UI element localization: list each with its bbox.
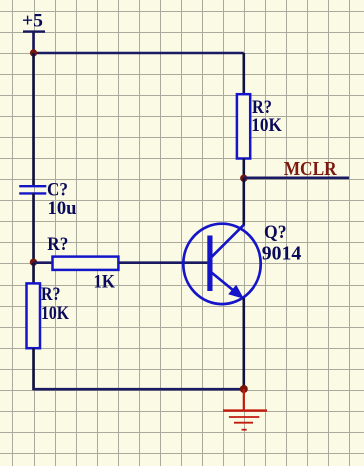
capacitor C? <box>19 186 46 193</box>
resistor R? 10K (lower left) <box>27 283 41 348</box>
svg-text:9014: 9014 <box>262 242 302 264</box>
transistor Q1 emitter arrowhead <box>228 285 244 299</box>
power +5 <box>23 32 45 53</box>
node junction ground <box>240 385 248 393</box>
svg-text:MCLR: MCLR <box>284 158 337 180</box>
svg-text:Q?: Q? <box>264 222 287 243</box>
svg-text:+5: +5 <box>22 11 43 32</box>
transistor Q1 collector line <box>212 225 244 257</box>
svg-text:R?: R? <box>41 284 61 305</box>
wire right rail top <box>243 53 246 94</box>
svg-text:10u: 10u <box>48 198 77 219</box>
svg-text:R?: R? <box>47 234 68 255</box>
wire top rail <box>34 52 244 55</box>
transistor Q1 body circle <box>183 224 260 304</box>
svg-text:10K: 10K <box>41 303 69 324</box>
node junction left-middle <box>30 259 37 266</box>
resistor R? 10K (upper right) <box>237 94 250 158</box>
ground symbol <box>223 389 267 430</box>
svg-text:10K: 10K <box>251 115 282 136</box>
node junction top-left <box>30 49 37 56</box>
wire base: resistor 1K to transistor <box>118 261 207 264</box>
wire resistor to MCLR node <box>243 159 246 180</box>
transistor Q1 emitter line <box>212 273 240 296</box>
wire collector <box>243 178 246 226</box>
wire left rail below capacitor <box>32 193 35 263</box>
svg-text:1K: 1K <box>94 272 116 293</box>
transistor Q1 base bar <box>207 236 212 292</box>
wire resistor 10K to bottom rail <box>32 348 35 390</box>
wire junction down to resistor 10K (lower left) <box>32 263 35 284</box>
node junction MCLR <box>240 175 247 182</box>
wire left rail above capacitor <box>32 53 35 186</box>
wire MCLR <box>244 177 349 180</box>
resistor R? 1K (horizontal) <box>53 257 119 270</box>
wire bottom rail <box>34 388 244 391</box>
wire junction to resistor 1K <box>34 261 53 264</box>
wire emitter down <box>243 298 246 389</box>
